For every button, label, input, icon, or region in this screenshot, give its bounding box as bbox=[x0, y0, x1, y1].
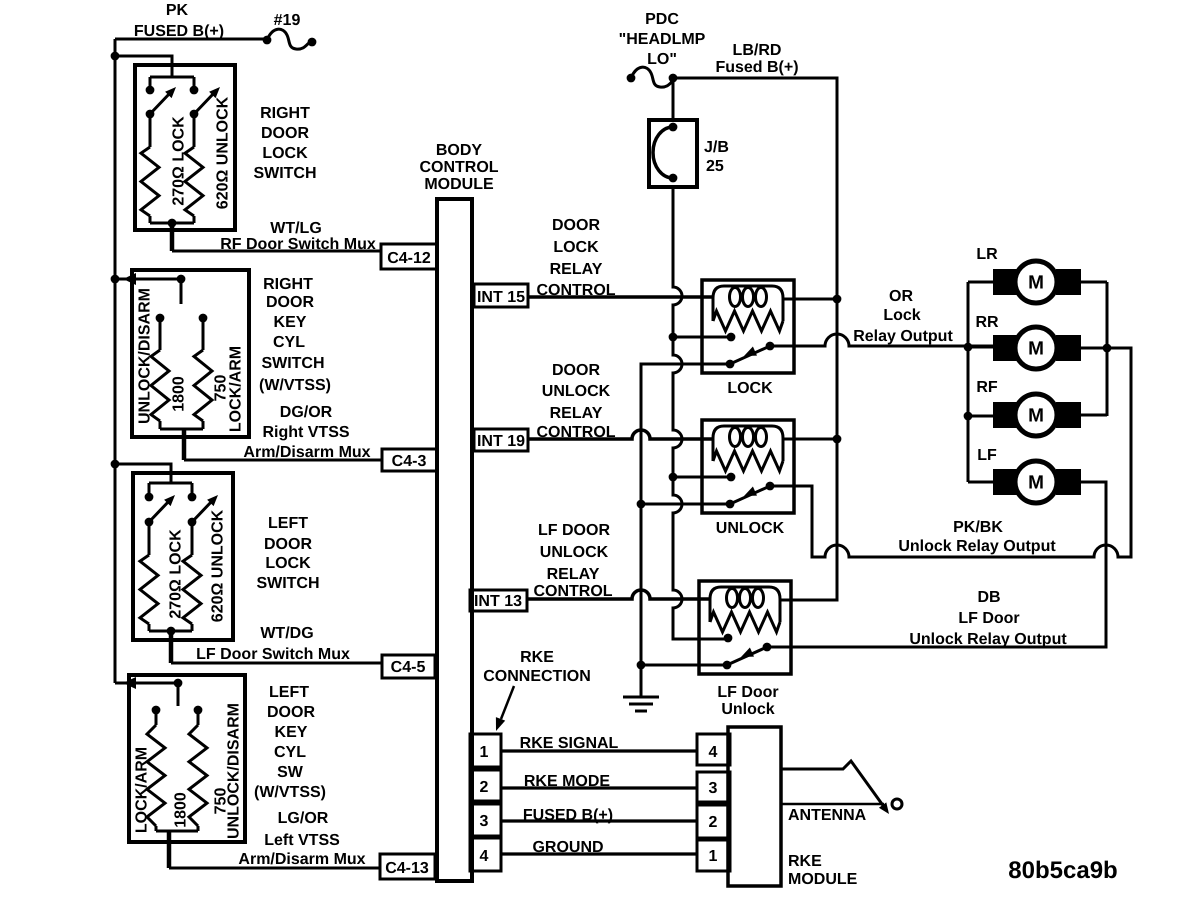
svg-text:GROUND: GROUND bbox=[532, 839, 603, 856]
svg-text:DOOR: DOOR bbox=[267, 704, 315, 721]
svg-text:M: M bbox=[1028, 406, 1044, 427]
svg-text:KEY: KEY bbox=[275, 724, 308, 741]
svg-text:RELAY: RELAY bbox=[547, 566, 600, 583]
svg-text:PK: PK bbox=[166, 2, 189, 19]
svg-text:LOCK: LOCK bbox=[265, 555, 311, 572]
svg-text:FUSED B(+): FUSED B(+) bbox=[134, 23, 224, 40]
svg-text:DOOR: DOOR bbox=[266, 294, 314, 311]
svg-text:CONTROL: CONTROL bbox=[533, 583, 612, 600]
svg-text:RKE: RKE bbox=[788, 853, 822, 870]
svg-text:Unlock: Unlock bbox=[721, 701, 774, 718]
svg-text:LR: LR bbox=[976, 246, 998, 263]
svg-text:WT/LG: WT/LG bbox=[270, 220, 322, 237]
svg-text:LB/RD: LB/RD bbox=[733, 42, 782, 59]
svg-text:DOOR: DOOR bbox=[261, 125, 309, 142]
svg-text:WT/DG: WT/DG bbox=[260, 625, 313, 642]
svg-text:SWITCH: SWITCH bbox=[253, 165, 316, 182]
svg-text:(W/VTSS): (W/VTSS) bbox=[254, 784, 326, 801]
svg-text:INT 19: INT 19 bbox=[477, 433, 525, 450]
svg-text:RELAY: RELAY bbox=[550, 405, 603, 422]
svg-text:M: M bbox=[1028, 339, 1044, 360]
svg-text:CONTROL: CONTROL bbox=[536, 282, 615, 299]
svg-text:C4-13: C4-13 bbox=[385, 860, 429, 877]
svg-text:DOOR: DOOR bbox=[552, 362, 600, 379]
svg-text:2: 2 bbox=[480, 779, 489, 796]
svg-text:RF: RF bbox=[976, 379, 998, 396]
svg-text:LOCK: LOCK bbox=[727, 380, 773, 397]
svg-text:Right VTSS: Right VTSS bbox=[262, 424, 349, 441]
svg-text:CYL: CYL bbox=[274, 744, 306, 761]
svg-text:80b5ca9b: 80b5ca9b bbox=[1008, 857, 1117, 884]
svg-text:LG/OR: LG/OR bbox=[278, 810, 329, 827]
svg-text:270Ω LOCK: 270Ω LOCK bbox=[171, 116, 188, 206]
svg-text:LF Door Switch Mux: LF Door Switch Mux bbox=[196, 646, 350, 663]
svg-text:PK/BK: PK/BK bbox=[953, 519, 1003, 536]
svg-text:FUSED B(+): FUSED B(+) bbox=[523, 807, 613, 824]
svg-text:Unlock Relay Output: Unlock Relay Output bbox=[898, 538, 1056, 555]
svg-text:LF Door: LF Door bbox=[717, 684, 778, 701]
svg-text:CONTROL: CONTROL bbox=[536, 424, 615, 441]
svg-text:PDC: PDC bbox=[645, 11, 679, 28]
svg-text:LEFT: LEFT bbox=[269, 684, 309, 701]
svg-text:620Ω UNLOCK: 620Ω UNLOCK bbox=[210, 509, 227, 622]
svg-text:C4-12: C4-12 bbox=[387, 250, 431, 267]
svg-text:1: 1 bbox=[480, 744, 489, 761]
svg-text:INT 15: INT 15 bbox=[477, 289, 525, 306]
svg-text:LF Door: LF Door bbox=[958, 610, 1019, 627]
svg-text:CONTROL: CONTROL bbox=[419, 159, 498, 176]
svg-text:MODULE: MODULE bbox=[424, 176, 494, 193]
svg-text:25: 25 bbox=[706, 158, 724, 175]
svg-text:BODY: BODY bbox=[436, 142, 483, 159]
svg-text:DOOR: DOOR bbox=[552, 217, 600, 234]
svg-text:RF Door Switch Mux: RF Door Switch Mux bbox=[220, 236, 376, 253]
svg-text:(W/VTSS): (W/VTSS) bbox=[259, 377, 331, 394]
svg-text:M: M bbox=[1028, 473, 1044, 494]
svg-text:SWITCH: SWITCH bbox=[261, 355, 324, 372]
svg-text:3: 3 bbox=[480, 813, 489, 830]
svg-text:LOCK: LOCK bbox=[553, 239, 599, 256]
svg-text:2: 2 bbox=[709, 814, 718, 831]
svg-text:C4-5: C4-5 bbox=[391, 659, 426, 676]
svg-text:M: M bbox=[1028, 273, 1044, 294]
svg-text:LOCK/ARM: LOCK/ARM bbox=[228, 346, 245, 432]
svg-text:LO": LO" bbox=[647, 51, 677, 68]
svg-text:RKE: RKE bbox=[520, 649, 554, 666]
svg-text:LOCK/ARM: LOCK/ARM bbox=[134, 747, 151, 833]
svg-text:UNLOCK/DISARM: UNLOCK/DISARM bbox=[226, 703, 243, 839]
svg-text:3: 3 bbox=[709, 780, 718, 797]
svg-text:MODULE: MODULE bbox=[788, 871, 858, 888]
svg-text:Arm/Disarm Mux: Arm/Disarm Mux bbox=[238, 851, 365, 868]
svg-text:RIGHT: RIGHT bbox=[260, 105, 310, 122]
svg-text:Unlock Relay Output: Unlock Relay Output bbox=[909, 631, 1067, 648]
svg-text:ANTENNA: ANTENNA bbox=[788, 807, 867, 824]
svg-text:Fused B(+): Fused B(+) bbox=[715, 59, 798, 76]
svg-text:SW: SW bbox=[277, 764, 304, 781]
svg-text:CYL: CYL bbox=[273, 334, 305, 351]
svg-text:620Ω UNLOCK: 620Ω UNLOCK bbox=[215, 96, 232, 209]
svg-text:DOOR: DOOR bbox=[264, 536, 312, 553]
svg-text:CONNECTION: CONNECTION bbox=[483, 668, 591, 685]
svg-text:Left VTSS: Left VTSS bbox=[264, 832, 340, 849]
svg-text:Lock: Lock bbox=[883, 307, 920, 324]
svg-text:UNLOCK: UNLOCK bbox=[716, 520, 785, 537]
svg-text:OR: OR bbox=[889, 288, 913, 305]
svg-text:UNLOCK: UNLOCK bbox=[542, 383, 611, 400]
svg-text:4: 4 bbox=[480, 848, 489, 865]
svg-text:LF: LF bbox=[977, 447, 997, 464]
svg-text:RELAY: RELAY bbox=[550, 261, 603, 278]
svg-text:J/B: J/B bbox=[704, 139, 729, 156]
svg-text:LEFT: LEFT bbox=[268, 515, 308, 532]
svg-text:RR: RR bbox=[975, 314, 999, 331]
svg-text:1800: 1800 bbox=[171, 376, 188, 412]
svg-text:4: 4 bbox=[709, 744, 718, 761]
svg-text:270Ω LOCK: 270Ω LOCK bbox=[168, 529, 185, 619]
svg-text:RKE SIGNAL: RKE SIGNAL bbox=[520, 735, 619, 752]
svg-text:KEY: KEY bbox=[274, 314, 307, 331]
svg-text:DB: DB bbox=[977, 589, 1000, 606]
svg-text:RKE MODE: RKE MODE bbox=[524, 773, 611, 790]
svg-text:Arm/Disarm Mux: Arm/Disarm Mux bbox=[243, 444, 370, 461]
svg-text:SWITCH: SWITCH bbox=[256, 575, 319, 592]
svg-text:1800: 1800 bbox=[173, 792, 190, 828]
svg-text:1: 1 bbox=[709, 848, 718, 865]
svg-text:DG/OR: DG/OR bbox=[280, 404, 333, 421]
svg-text:INT 13: INT 13 bbox=[474, 593, 522, 610]
svg-text:LF DOOR: LF DOOR bbox=[538, 522, 610, 539]
svg-text:UNLOCK/DISARM: UNLOCK/DISARM bbox=[137, 288, 154, 424]
svg-text:C4-3: C4-3 bbox=[392, 453, 427, 470]
svg-text:RIGHT: RIGHT bbox=[263, 276, 313, 293]
svg-text:LOCK: LOCK bbox=[262, 145, 308, 162]
svg-text:UNLOCK: UNLOCK bbox=[540, 544, 609, 561]
svg-text:#19: #19 bbox=[274, 12, 301, 29]
svg-text:"HEADLMP: "HEADLMP bbox=[619, 31, 706, 48]
svg-text:Relay Output: Relay Output bbox=[853, 328, 953, 345]
